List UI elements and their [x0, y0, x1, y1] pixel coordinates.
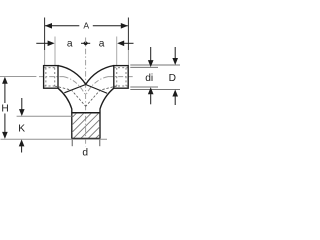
svg-text:A: A [83, 20, 89, 30]
outer top arc right [86, 66, 114, 85]
outlet bottom edge [71, 137, 100, 139]
D extension top [130, 64, 180, 66]
di extension bottom [130, 86, 158, 88]
svg-text:a: a [99, 38, 105, 49]
axis line right [86, 77, 132, 94]
svg-text:H: H [1, 103, 8, 114]
left socket [44, 66, 58, 89]
D extension bottom [130, 89, 180, 91]
outer lower curve left [58, 88, 72, 138]
svg-text:di: di [145, 73, 153, 84]
base line [1, 138, 108, 140]
svg-text:a: a [67, 38, 73, 49]
dimension arrow a left [36, 41, 54, 47]
K line [17, 115, 72, 117]
extension line A left [44, 18, 46, 66]
svg-text:K: K [18, 123, 25, 134]
outlet rim line [71, 112, 100, 114]
dimension arrows D [172, 47, 178, 105]
right socket [114, 66, 128, 89]
svg-text:d: d [82, 148, 88, 159]
hatch section [51, 113, 121, 139]
left socket bore dashed [44, 68, 58, 86]
extension line a left [54, 37, 56, 66]
right socket bore dashed [114, 68, 128, 86]
axis line left [0, 77, 85, 95]
crease line left [64, 85, 85, 93]
di extension top [130, 66, 158, 68]
dimension line A [45, 23, 128, 29]
hidden bore dashed right [86, 86, 117, 106]
dimension arrow a right [117, 41, 133, 47]
hidden bore dashed left [55, 86, 86, 106]
dimension K [19, 98, 25, 153]
dimension arrows di [148, 47, 154, 104]
center diamond marker [81, 41, 90, 46]
center line [85, 38, 87, 147]
svg-text:D: D [169, 73, 176, 84]
crease line right [86, 85, 107, 94]
dimension H [2, 77, 8, 139]
extension line A right [127, 18, 129, 66]
outer top arc left [58, 66, 86, 85]
extension line a right [116, 37, 118, 66]
outer lower curve right [100, 88, 114, 138]
d extension ticks [72, 139, 100, 147]
